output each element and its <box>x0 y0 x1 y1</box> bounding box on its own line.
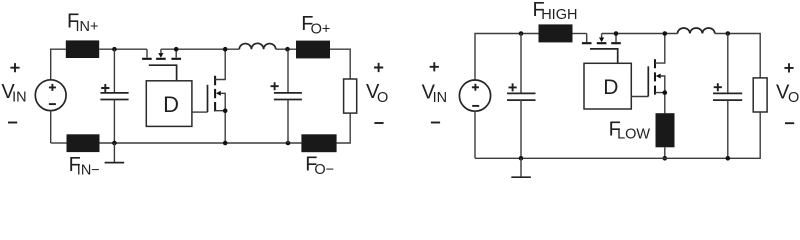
svg-text:O: O <box>377 90 388 106</box>
svg-text:IN: IN <box>433 90 448 106</box>
load V_O rectangle <box>344 79 357 113</box>
transistor Q3 channel segments <box>582 42 621 44</box>
transistor Q4 body wire <box>660 76 665 93</box>
wire inductor to F_O+ <box>276 48 296 50</box>
node input cap top junction <box>519 31 524 36</box>
svg-text:IN−: IN− <box>77 162 100 178</box>
transistor Q3 body arrow <box>599 38 604 43</box>
node F_LOW bottom junction <box>663 156 668 161</box>
ferrite bead F_IN+ <box>66 40 99 58</box>
source V_IN bottom lead <box>474 111 476 158</box>
wire F_HIGH to Q3 source <box>573 33 587 35</box>
label V_IN minus <box>8 122 17 124</box>
capacitor C4 top lead <box>727 34 729 94</box>
node output cap top junction <box>726 31 731 36</box>
transistor Q2 body wire <box>220 93 225 111</box>
label V_O minus <box>785 122 794 124</box>
node output cap top junction <box>285 47 290 52</box>
transistor Q4 gate plate <box>647 66 649 96</box>
inductor L1 <box>239 43 275 49</box>
node Q2 body-source junction <box>223 108 228 113</box>
wire U2 to Q4 gate <box>631 96 648 98</box>
node bottom ground junction <box>519 156 524 161</box>
driver U1 box <box>146 81 192 127</box>
node output cap bottom junction <box>286 141 291 146</box>
label V_IN plus <box>430 62 439 71</box>
transistor Q2 source wire <box>215 111 225 143</box>
transistor Q1 source lead <box>146 49 148 58</box>
capacitor C3 plates <box>507 93 536 100</box>
node input cap top junction <box>112 47 117 52</box>
transistor Q4 body arrow <box>656 74 661 79</box>
source V_IN internal plus <box>49 84 56 91</box>
label V_O plus <box>374 63 383 72</box>
source V_IN circle <box>459 80 490 111</box>
svg-text:HIGH: HIGH <box>541 7 577 23</box>
source V_IN circle <box>35 80 66 111</box>
transistor Q2 gate plate <box>207 85 209 112</box>
label V_O plus <box>784 63 793 72</box>
inductor L2 <box>678 28 715 34</box>
svg-text:O: O <box>788 90 799 106</box>
transistor Q1 drain lead <box>175 49 177 58</box>
node output cap bottom junction <box>726 156 731 161</box>
capacitor C3 plus sign <box>509 83 517 91</box>
transistor Q4 drain wire <box>655 34 665 64</box>
node ground junction <box>112 141 117 146</box>
capacitor C1 plus sign <box>101 84 109 92</box>
capacitor C2 plus sign <box>271 82 279 90</box>
transistor Q1 body lead <box>160 49 162 53</box>
wire bottom-left corner to F_IN- <box>51 142 67 144</box>
node Q4 body-source junction <box>663 90 668 95</box>
wire U1 to Q2 gate <box>192 111 208 113</box>
svg-text:D: D <box>603 76 618 99</box>
ground stem <box>520 158 522 177</box>
source V_IN internal minus <box>49 103 56 105</box>
ferrite bead F_IN- <box>67 134 100 152</box>
svg-text:O+: O+ <box>311 21 331 37</box>
node Q4 drain rail junction <box>663 31 668 36</box>
transistor Q2 drain wire <box>215 49 225 79</box>
label V_IN plus <box>10 63 19 72</box>
transistor Q1 body arrow <box>158 53 163 58</box>
ground bar <box>105 162 125 164</box>
transistor Q3 source lead <box>586 34 588 43</box>
ferrite bead F_O- <box>301 134 336 152</box>
capacitor C4 bottom lead <box>727 100 729 158</box>
capacitor C1 bottom lead <box>113 100 115 144</box>
source V_IN internal minus <box>472 105 479 107</box>
capacitor C2 plates <box>274 93 302 100</box>
wire bottom rail F_IN- to F_O- <box>100 142 302 144</box>
transistor Q4 channel segments <box>654 59 656 94</box>
ground bar <box>511 176 531 178</box>
wire F_LOW to bottom rail <box>664 147 666 158</box>
wire inductor to load corner <box>715 34 760 78</box>
svg-text:LOW: LOW <box>617 127 650 143</box>
transistor Q2 channel segments <box>214 76 216 112</box>
capacitor C3 bottom lead <box>520 100 522 158</box>
svg-text:O−: O− <box>314 162 334 178</box>
svg-text:IN: IN <box>12 90 27 106</box>
ferrite bead F_LOW <box>656 113 675 147</box>
capacitor C1 plates <box>100 93 128 100</box>
load V_O rectangle <box>753 78 767 112</box>
label V_IN minus <box>431 122 440 124</box>
wire top-left corner V_IN to F_HIGH <box>475 34 539 81</box>
node Q2 drain rail junction <box>223 47 228 52</box>
label V_O minus <box>374 122 383 124</box>
wire top rail Q1 body to inductor <box>161 48 239 50</box>
transistor Q3 gate <box>590 49 618 63</box>
capacitor C4 plus sign <box>714 83 722 91</box>
svg-text:IN+: IN+ <box>76 19 99 35</box>
capacitor C3 top lead <box>520 34 522 94</box>
node Q3 drain junction <box>614 31 619 36</box>
transistor Q1 gate <box>149 65 177 81</box>
capacitor C2 bottom lead <box>287 100 289 144</box>
capacitor C2 top lead <box>287 49 289 93</box>
transistor Q3 drain lead <box>615 34 617 43</box>
wire load bottom to F_O- <box>337 113 351 143</box>
transistor Q3 body lead <box>601 34 603 38</box>
wire top-left corner V_IN to F_IN+ <box>51 49 66 80</box>
source V_IN bottom lead <box>50 111 52 143</box>
wire load bottom and bottom rail <box>475 112 760 158</box>
ferrite bead F_O+ <box>296 41 330 59</box>
transistor Q2 body arrow <box>216 91 221 96</box>
wire F_O+ to load corner <box>330 49 350 79</box>
capacitor C4 plates <box>713 93 742 100</box>
ground stem <box>113 143 115 163</box>
transistor Q1 channel segments <box>142 58 181 60</box>
driver U2 box <box>584 63 631 109</box>
node Q1 drain junction <box>174 47 179 52</box>
node Q2 source rail junction <box>223 141 228 146</box>
wire top rail F_IN+ to Q1 source <box>99 48 147 50</box>
source V_IN internal plus <box>472 84 479 91</box>
capacitor C1 top lead <box>113 49 115 93</box>
wire top rail Q3 body to inductor <box>602 33 678 35</box>
svg-text:D: D <box>163 92 179 117</box>
transistor Q4 source wire <box>655 93 665 114</box>
ferrite bead F_HIGH <box>539 24 573 42</box>
